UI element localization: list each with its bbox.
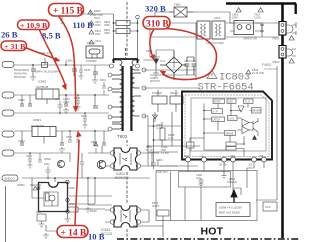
- IC803 pin circles bottom: [186, 157, 267, 162]
- connector tab 26V out: [2, 62, 14, 68]
- svg-text:L801: L801: [214, 16, 221, 20]
- svg-text:R815: R815: [90, 209, 97, 213]
- svg-text:110 B: 110 B: [73, 20, 94, 30]
- svg-text:L841: L841: [55, 98, 61, 101]
- small box right SCF: [263, 202, 277, 211]
- svg-text:C841: C841: [66, 59, 73, 63]
- connector tab 8.5V out: [2, 92, 14, 98]
- svg-text:S.S.S: S.S.S: [228, 118, 234, 120]
- svg-text:26 B: 26 B: [1, 30, 18, 40]
- fuse F801: [169, 7, 193, 17]
- warning triangle C801: [236, 8, 241, 12]
- IC803 pin labels: [184, 155, 264, 167]
- svg-text:START: START: [214, 101, 222, 104]
- svg-text:T802: T802: [117, 134, 128, 139]
- node dots left: [32, 13, 96, 179]
- transformer top bracket: [113, 59, 138, 63]
- svg-text:P801: P801: [273, 37, 280, 41]
- wire primary AC rails: [150, 12, 279, 80]
- svg-text:10 B: 10 B: [88, 232, 105, 242]
- connector tab 14V out: [2, 150, 14, 156]
- svg-text:IC841: IC841: [33, 118, 41, 122]
- varistor disc: [260, 23, 264, 37]
- bubble +10,9B: [18, 20, 50, 30]
- IC803 block outline: [182, 92, 272, 160]
- svg-text:D844 C4L26(106H4): D844 C4L26(106H4): [35, 70, 61, 74]
- svg-text:OSC: OSC: [228, 102, 233, 104]
- triangle near P802: [289, 59, 294, 63]
- arrowhead +14B: [76, 131, 81, 138]
- svg-text:IC811: IC811: [17, 183, 25, 187]
- IC811 SE115N block: [39, 183, 68, 212]
- wire y153: [14, 153, 70, 162]
- wire top-left branch: [61, 14, 63, 24]
- svg-text:P802: P802: [262, 62, 272, 67]
- line filter LF801: [197, 21, 225, 39]
- warning triangles small mid: [89, 21, 94, 44]
- svg-text:FB: FB: [260, 155, 264, 158]
- wire vertical x88: [80, 153, 112, 205]
- arrowhead +115B: [73, 106, 79, 113]
- bubble +14B: [57, 226, 88, 239]
- capacitor symbols top-left: [20, 69, 106, 145]
- wire 115V top rail: [62, 13, 114, 15]
- svg-text:10V: 10V: [196, 176, 201, 180]
- svg-text:PN1: PN1: [184, 155, 189, 158]
- IC841 regulator box: [32, 127, 56, 144]
- svg-text:Y.L: Y.L: [200, 155, 204, 158]
- warning triangle F801r: [258, 8, 263, 12]
- wire gnd bus y178: [22, 177, 150, 179]
- svg-text:80W +4 0.39/2W: 80W +4 0.39/2W: [219, 210, 240, 214]
- svg-text:OSC: OSC: [230, 155, 236, 158]
- diode D804 row: [42, 63, 48, 68]
- svg-text:P8001: P8001: [87, 41, 96, 45]
- IC802 optocoupler block: [114, 148, 137, 170]
- svg-text:3.15A: 3.15A: [254, 16, 261, 20]
- small parts bottom-left: [33, 186, 46, 227]
- svg-text:C845: C845: [84, 69, 91, 72]
- svg-text:POWER: POWER: [152, 91, 162, 95]
- isolation dashed boundary vertical: [126, 2, 128, 238]
- feedback table box: [216, 203, 250, 217]
- svg-text:250V: 250V: [232, 16, 238, 20]
- bubble +115B: [49, 4, 84, 17]
- degauss relay box: [230, 21, 261, 35]
- svg-text:D812: D812: [91, 141, 98, 144]
- svg-text:+ 14 B: + 14 B: [61, 228, 87, 238]
- svg-text:C813: C813: [95, 40, 102, 43]
- wire IC811 links: [32, 178, 112, 204]
- wire secondary y90/95: [14, 94, 109, 96]
- svg-text:LATCH: LATCH: [213, 119, 221, 122]
- svg-text:27.5W: 27.5W: [161, 151, 169, 155]
- wires left of IC803: [148, 126, 182, 166]
- small labels left side: [14, 51, 97, 213]
- svg-text:400F: 400F: [95, 24, 101, 27]
- transformer windings left: [112, 60, 122, 129]
- IC803 internal blocks: [187, 99, 262, 157]
- resistors R803 R804: [114, 14, 138, 59]
- svg-text:C851: C851: [26, 155, 33, 158]
- thick top line: [226, 2, 296, 5]
- svg-text:+ 31 B: + 31 B: [4, 42, 25, 51]
- left bottom vertical line: [5, 186, 7, 242]
- bridge rectifier D801: [160, 50, 186, 80]
- diode D806 vertical: [154, 55, 159, 69]
- R802 fusible resistor label: [90, 9, 103, 20]
- svg-text:4N25V9V: 4N25V9V: [114, 176, 129, 180]
- svg-text:C-11: C-11: [168, 136, 174, 140]
- thick right vertical line: [281, 4, 284, 239]
- connector tab 10.9V out: [2, 110, 14, 116]
- red line from +31B: [27, 48, 56, 59]
- transistor Q801 circle: [97, 160, 105, 168]
- transformer windings right: [132, 60, 141, 116]
- svg-text:+ 10,9 B: + 10,9 B: [20, 21, 47, 30]
- svg-text:470F: 470F: [63, 100, 70, 104]
- IC802 label: [114, 172, 129, 180]
- svg-text:S5. S5.: S5. S5.: [219, 164, 228, 167]
- IC803 inner control rect: [191, 98, 266, 151]
- svg-text:PG4N: PG4N: [152, 204, 159, 208]
- IC821 label: [101, 228, 112, 236]
- wire IC841 row y134: [14, 131, 109, 134]
- transformer pin circles: [108, 64, 146, 131]
- svg-text:15 36 155L: 15 36 155L: [252, 72, 265, 75]
- red line from +14B up: [75, 140, 79, 226]
- red line from +10,9B: [39, 29, 65, 85]
- connector P801: [279, 22, 286, 36]
- connector P802: [279, 46, 286, 59]
- svg-text:R8H: R8H: [36, 210, 41, 214]
- arrowhead +10,9B: [62, 84, 67, 91]
- svg-text:SCF: SCF: [265, 205, 271, 209]
- svg-text:5501(5H): 5501(5H): [14, 75, 26, 79]
- wire right thin vertical: [256, 66, 277, 200]
- svg-text:L842: L842: [44, 163, 50, 166]
- wire secondary y61: [14, 64, 112, 66]
- middle column wires/labels x~153: [148, 118, 156, 169]
- svg-text:Q802: Q802: [44, 157, 51, 161]
- svg-text:T.L.S: T.L.S: [245, 102, 251, 104]
- svg-text:TO DE 05S: TO DE 05S: [264, 67, 277, 71]
- transistor Q802: [57, 160, 64, 167]
- wire y113: [14, 112, 109, 114]
- wire cap stubs under y134: [22, 131, 104, 143]
- warning triangle IC803: [207, 71, 217, 79]
- svg-text:R821: R821: [68, 202, 75, 206]
- gnd primary: [153, 69, 159, 77]
- bubble +31B: [1, 41, 27, 51]
- connector tab GND(Y): [2, 175, 18, 181]
- svg-text:GND(Y): GND(Y): [4, 177, 15, 181]
- arrowhead 310B loop: [160, 71, 167, 76]
- red line from +115B: [59, 16, 76, 107]
- IC803 inner dashed border: [185, 95, 269, 157]
- svg-text:C840: C840: [18, 98, 25, 102]
- svg-text:C844: C844: [18, 139, 25, 143]
- svg-text:5%(): 5%(): [94, 16, 100, 20]
- ground symbols left: [30, 76, 98, 239]
- svg-text:F801: F801: [174, 3, 181, 7]
- red loop from 310B: [163, 29, 217, 80]
- top bracket vertical to boundary: [125, 48, 127, 58]
- svg-text:C-12: C-12: [156, 126, 162, 130]
- wires right of T802 secondary to primary: [141, 50, 200, 166]
- red S-curve from 310B: [150, 30, 154, 57]
- svg-text:KA78L05: KA78L05: [36, 85, 49, 89]
- svg-text:SENSE: SENSE: [226, 134, 234, 136]
- diodes resistors under relay: [148, 112, 200, 152]
- wire cap stubs under y95: [22, 95, 95, 106]
- R823 label: [227, 177, 237, 184]
- P8001 connector box: [86, 46, 103, 58]
- svg-text:160W +4 0.12/2W: 160W +4 0.12/2W: [219, 205, 242, 209]
- wire verticals caps top area: [33, 58, 95, 72]
- up arrow bottom right: [231, 191, 236, 203]
- extra secondary-side components for density: [28, 65, 107, 178]
- arrowhead 310B short: [150, 54, 155, 61]
- small components bottom middle: [133, 172, 227, 238]
- relay boxes row: [152, 90, 183, 112]
- outer thin rectangle bottom right: [156, 171, 257, 221]
- svg-text:P802: P802: [273, 60, 280, 64]
- svg-text:VARISTOR: VARISTOR: [243, 37, 257, 41]
- svg-text:8,5 B: 8,5 B: [42, 31, 61, 41]
- IC821 optocoupler block: [114, 206, 137, 227]
- svg-text:0P(N)TH: 0P(N)TH: [150, 79, 160, 83]
- inner rect A: [179, 172, 231, 188]
- connector tab 31V out: [2, 131, 14, 137]
- svg-text:RELAY: RELAY: [170, 91, 179, 95]
- IC840 regulator box: [36, 89, 59, 104]
- svg-text:0.12/2W: 0.12/2W: [227, 180, 237, 184]
- svg-text:400F: 400F: [95, 33, 101, 36]
- svg-text:470F 50V: 470F 50V: [156, 170, 168, 174]
- arrowhead +31B: [54, 57, 61, 62]
- svg-text:C850: C850: [66, 136, 73, 139]
- svg-text:2L TK: 2L TK: [146, 148, 153, 152]
- svg-text:390F: 390F: [104, 31, 110, 35]
- svg-text:310 B: 310 B: [146, 20, 169, 30]
- svg-text:IC840: IC840: [38, 80, 46, 84]
- wire bottom y231: [46, 225, 60, 231]
- svg-text:320 B: 320 B: [145, 4, 166, 14]
- bottom dash-dot isolation line: [117, 238, 300, 240]
- svg-text:390F: 390F: [104, 23, 110, 27]
- svg-text:POWER: POWER: [86, 59, 97, 63]
- warning triangle R802: [88, 10, 93, 14]
- svg-text:C816: C816: [68, 186, 75, 190]
- triangle near P801: [289, 36, 294, 40]
- short thick downturn: [295, 4, 297, 15]
- small box R821: [68, 207, 105, 212]
- svg-text:C809: C809: [156, 158, 163, 162]
- svg-text:DRIVER: DRIVER: [252, 110, 261, 112]
- svg-text:+ 115 B: + 115 B: [53, 6, 83, 16]
- svg-text:KA78R08: KA78R08: [31, 124, 44, 128]
- svg-text:S - P: S - P: [213, 111, 219, 113]
- smoothing caps C810: [185, 57, 197, 75]
- svg-text:D861: D861: [100, 79, 107, 82]
- svg-text:C848: C848: [81, 115, 88, 118]
- bubble 310B: [143, 17, 170, 30]
- svg-text:HOT: HOT: [201, 226, 224, 238]
